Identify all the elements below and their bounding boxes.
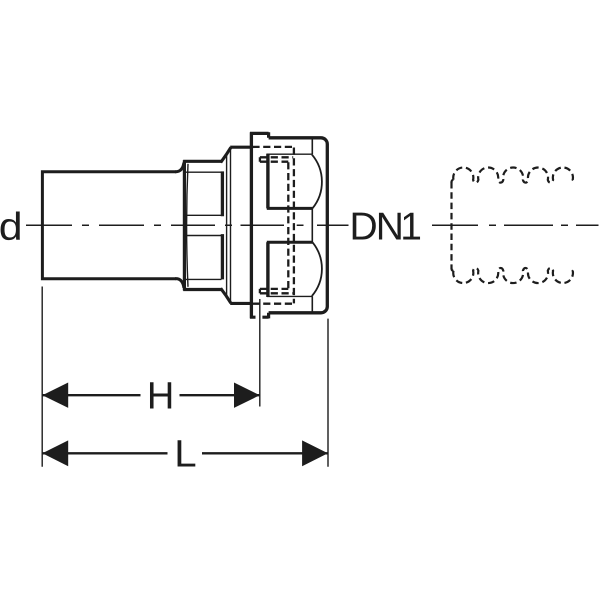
arrow L right — [302, 440, 328, 466]
hidden pipe dashed — [252, 147, 294, 304]
socket body — [269, 138, 328, 313]
H dimension line — [42, 394, 259, 396]
centerline — [26, 224, 599, 226]
svg-text:DN1: DN1 — [350, 205, 423, 248]
hidden line DA bottom — [260, 292, 293, 294]
extension line left — [41, 287, 43, 467]
insert cup top lines — [267, 207, 313, 210]
chamfer edge line — [226, 155, 228, 296]
svg-text:d: d — [0, 205, 23, 249]
press window arc bottom — [312, 242, 322, 296]
hidden line D1 bottom — [252, 303, 294, 305]
arrow H left — [42, 383, 68, 408]
hex inner arc — [187, 164, 188, 287]
wire — [175, 279, 184, 288]
extension line H — [259, 299, 261, 407]
insert cup top — [266, 154, 269, 209]
press window arc top — [312, 155, 322, 209]
chamfer ring — [221, 147, 231, 162]
L dimension line — [42, 452, 328, 454]
corrugated corner bottom — [452, 268, 454, 271]
hex right bar — [221, 171, 224, 279]
hidden line DA — [260, 156, 293, 158]
corrugated top scallops — [453, 168, 575, 183]
hidden line DB bottom — [260, 288, 288, 290]
socket outer shell — [250, 132, 253, 318]
socket bottom notch — [250, 313, 269, 319]
corrugated corner top — [452, 180, 454, 183]
flange — [230, 147, 250, 303]
hex inner lines — [185, 172, 222, 279]
wire — [175, 163, 184, 172]
hidden vertical V2 — [287, 162, 289, 288]
hidden connector — [259, 157, 261, 293]
insert cup bottom — [266, 242, 269, 297]
corrugated pipe dashed — [452, 168, 576, 284]
pipe — [42, 172, 176, 279]
corrugated bottom scallops — [453, 268, 575, 283]
hidden line DB — [260, 161, 288, 163]
socket top notch — [250, 132, 269, 138]
flange left edge — [230, 148, 232, 303]
socket inner wall — [311, 139, 313, 312]
extension line right — [327, 319, 329, 467]
arrow H right — [234, 383, 260, 408]
chamfer ring bottom — [221, 288, 231, 303]
arrow L left — [42, 440, 68, 466]
svg-text:L: L — [174, 434, 196, 476]
corrugated left edge — [450, 182, 452, 269]
hidden vertical V1 — [293, 148, 295, 304]
hidden line D1 — [252, 146, 294, 148]
svg-text:H: H — [147, 376, 174, 418]
hex body — [183, 160, 221, 290]
